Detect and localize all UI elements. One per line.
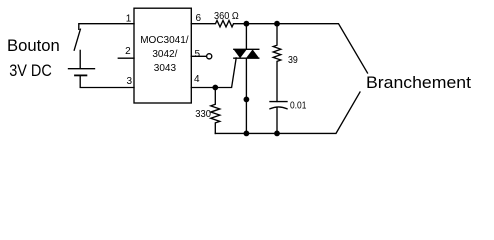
- svg-text:39: 39: [288, 55, 298, 66]
- svg-text:6: 6: [196, 13, 202, 24]
- svg-text:MOC3041/: MOC3041/: [140, 35, 189, 46]
- svg-text:4: 4: [194, 74, 200, 85]
- svg-text:0.01: 0.01: [290, 101, 307, 112]
- svg-text:3: 3: [126, 76, 132, 87]
- svg-text:3042/: 3042/: [152, 49, 177, 60]
- svg-text:5: 5: [195, 49, 201, 60]
- svg-text:Branchement: Branchement: [366, 73, 471, 92]
- svg-text:360 Ω: 360 Ω: [214, 11, 239, 22]
- svg-text:1: 1: [126, 14, 132, 25]
- svg-text:330: 330: [195, 109, 211, 120]
- svg-text:3043: 3043: [154, 63, 177, 74]
- svg-text:2: 2: [125, 46, 131, 57]
- svg-text:Bouton: Bouton: [7, 36, 60, 55]
- svg-text:3V DC: 3V DC: [9, 61, 52, 80]
